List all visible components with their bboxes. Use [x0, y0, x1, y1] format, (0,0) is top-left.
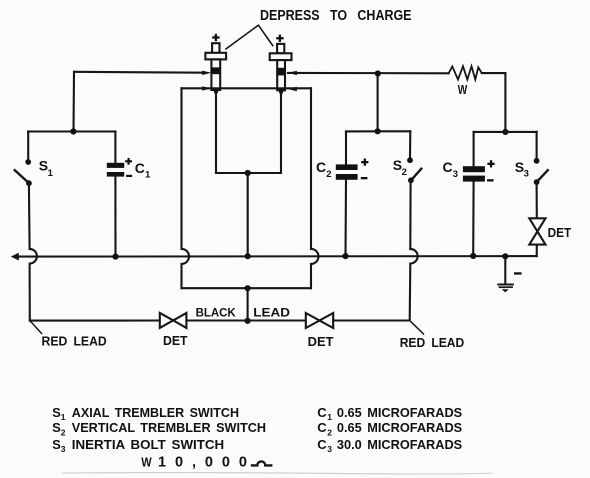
- wire: C3/S3 top rail: [474, 131, 537, 133]
- svg-text:0.65 MICROFARADS: 0.65 MICROFARADS: [337, 405, 463, 420]
- svg-text:INERTIA BOLT SWITCH: INERTIA BOLT SWITCH: [72, 437, 224, 452]
- svg-text:3: 3: [61, 444, 66, 454]
- svg-text:3: 3: [327, 444, 332, 454]
- svg-text:C: C: [317, 437, 327, 452]
- C2 minus mark: [361, 177, 368, 179]
- wire: black lead drop: [247, 288, 249, 321]
- node: junction on C3/S3 rail: [502, 129, 508, 135]
- svg-text:0.65 MICROFARADS: 0.65 MICROFARADS: [337, 420, 463, 435]
- main bus left end arrow: [11, 253, 19, 261]
- wire: top bus right segment: [288, 72, 449, 75]
- svg-text:DET: DET: [163, 334, 188, 348]
- C2 plus mark: [361, 159, 368, 166]
- wire: S1/C1 top rail: [28, 130, 115, 132]
- arrow into P1 at bus level: [202, 71, 211, 75]
- charging terminal P2 plus polarity mark: [276, 35, 283, 42]
- svg-text:1: 1: [61, 412, 66, 422]
- svg-text:VERTICAL TREMBLER SWITCH: VERTICAL TREMBLER SWITCH: [72, 420, 266, 435]
- wire: box left vertical (hops over main bus): [182, 88, 190, 288]
- svg-text:DET: DET: [548, 226, 572, 240]
- svg-text:S: S: [52, 405, 61, 420]
- svg-text:S: S: [52, 437, 61, 452]
- node: inner rail center junction: [245, 170, 251, 176]
- node: C1 junction on bus: [112, 254, 118, 260]
- wire: P1 electrode down to inner rail: [215, 94, 217, 173]
- capacitor C3: [463, 132, 485, 256]
- svg-text:2: 2: [402, 167, 407, 178]
- label RED LEAD (right) with leader: [411, 322, 424, 334]
- wire: S1 column hop over bus and down to red lead corner: [30, 249, 37, 321]
- wire: P2 electrode down to inner rail: [280, 94, 282, 173]
- wire: top bus left segment: [74, 71, 205, 74]
- ground symbol: [498, 256, 513, 292]
- svg-text:30.0 MICROFARADS: 30.0 MICROFARADS: [337, 437, 463, 452]
- wire: main bus: [18, 255, 537, 258]
- wire: C2/S2 top rail: [346, 130, 410, 132]
- capacitor C1: [107, 132, 124, 257]
- arrow into P2 at box-top level: [288, 87, 297, 91]
- switch S2: [407, 131, 421, 249]
- detonator DET (left, bow-tie): [160, 313, 187, 328]
- wire: lead to right corner up to S2: [333, 319, 410, 321]
- svg-text:W: W: [458, 83, 468, 97]
- detonator DET (right branch, vertical bow-tie): [529, 218, 545, 256]
- svg-text:S: S: [52, 420, 61, 435]
- switch S3: [534, 132, 548, 218]
- resistor W: [449, 66, 482, 79]
- svg-text:C: C: [443, 159, 453, 175]
- wire: box right vertical (hops over main bus): [311, 88, 319, 288]
- svg-text:BLACK: BLACK: [196, 306, 236, 320]
- svg-text:RED LEAD: RED LEAD: [42, 334, 107, 349]
- wire: center vertical from inner rail to main bus: [247, 173, 249, 256]
- svg-text:2: 2: [61, 427, 66, 437]
- node: C3 junction on bus: [470, 253, 476, 259]
- svg-text:C: C: [316, 159, 326, 175]
- arrow into P1 at box-top level: [202, 86, 211, 90]
- faint scan streak: [62, 473, 492, 474]
- svg-text:DET: DET: [308, 335, 334, 349]
- charging terminal P1 plus polarity mark: [212, 34, 219, 41]
- wire: lead between detonators: [186, 319, 305, 321]
- switch S1: [15, 132, 32, 249]
- C1 plus mark: [125, 158, 132, 165]
- wire: center firing box top rail with plunger contacts: [182, 87, 312, 89]
- wire: red lead left run: [30, 319, 160, 321]
- node: junction on C2/S2 rail: [375, 128, 381, 134]
- node: junction on lead wire: [245, 318, 251, 324]
- wire: drop from top bus to C2/S2 rail: [377, 74, 379, 132]
- svg-text:1: 1: [327, 412, 332, 422]
- node: C2 junction on bus: [342, 253, 348, 259]
- charging terminal P1 (depress-to-charge plunger): [205, 43, 226, 96]
- wire: left drop from bus to S1/C1 rail: [72, 72, 75, 132]
- C3 plus mark: [487, 160, 494, 167]
- svg-text:3: 3: [453, 169, 458, 180]
- label RED LEAD (left) with leader: [31, 322, 42, 334]
- node: junction on lower link: [245, 285, 251, 291]
- svg-text:3: 3: [524, 168, 529, 179]
- svg-text:2: 2: [326, 169, 331, 180]
- charging terminal P2 (depress-to-charge plunger): [270, 44, 292, 97]
- svg-text:C: C: [135, 160, 145, 176]
- ground minus mark: [514, 272, 522, 274]
- wire: inner rail: [216, 172, 281, 174]
- svg-text:1: 1: [145, 170, 151, 181]
- legend ohm squiggle: [252, 461, 271, 465]
- node: junction on top bus: [375, 70, 381, 76]
- wire: resistor to corner: [482, 73, 506, 132]
- arrow into P2 at bus level: [288, 71, 297, 75]
- svg-text:1: 1: [48, 168, 54, 179]
- svg-text:2: 2: [327, 427, 332, 437]
- svg-text:C: C: [317, 420, 327, 435]
- wire: lower link between box verticals: [182, 287, 312, 289]
- svg-text:LEAD: LEAD: [253, 306, 290, 320]
- C1 minus mark: [126, 175, 132, 177]
- node: ground junction on bus: [502, 253, 508, 259]
- svg-text:AXIAL TREMBLER SWITCH: AXIAL TREMBLER SWITCH: [72, 405, 239, 420]
- wire: S2 column hop over bus and down to red lead corner: [410, 249, 418, 321]
- capacitor C2: [336, 131, 358, 256]
- detonator DET (middle, bow-tie): [306, 313, 333, 328]
- node: center junction on bus: [245, 253, 251, 259]
- svg-text:W: W: [141, 454, 152, 469]
- svg-text:DEPRESS TO CHARGE: DEPRESS TO CHARGE: [260, 8, 412, 24]
- svg-text:C: C: [317, 405, 327, 420]
- leader lines from label to charging terminals: [226, 25, 273, 49]
- C3 minus mark: [487, 179, 494, 181]
- node: junction on S1/C1 rail: [70, 128, 76, 134]
- svg-text:RED LEAD: RED LEAD: [400, 335, 465, 350]
